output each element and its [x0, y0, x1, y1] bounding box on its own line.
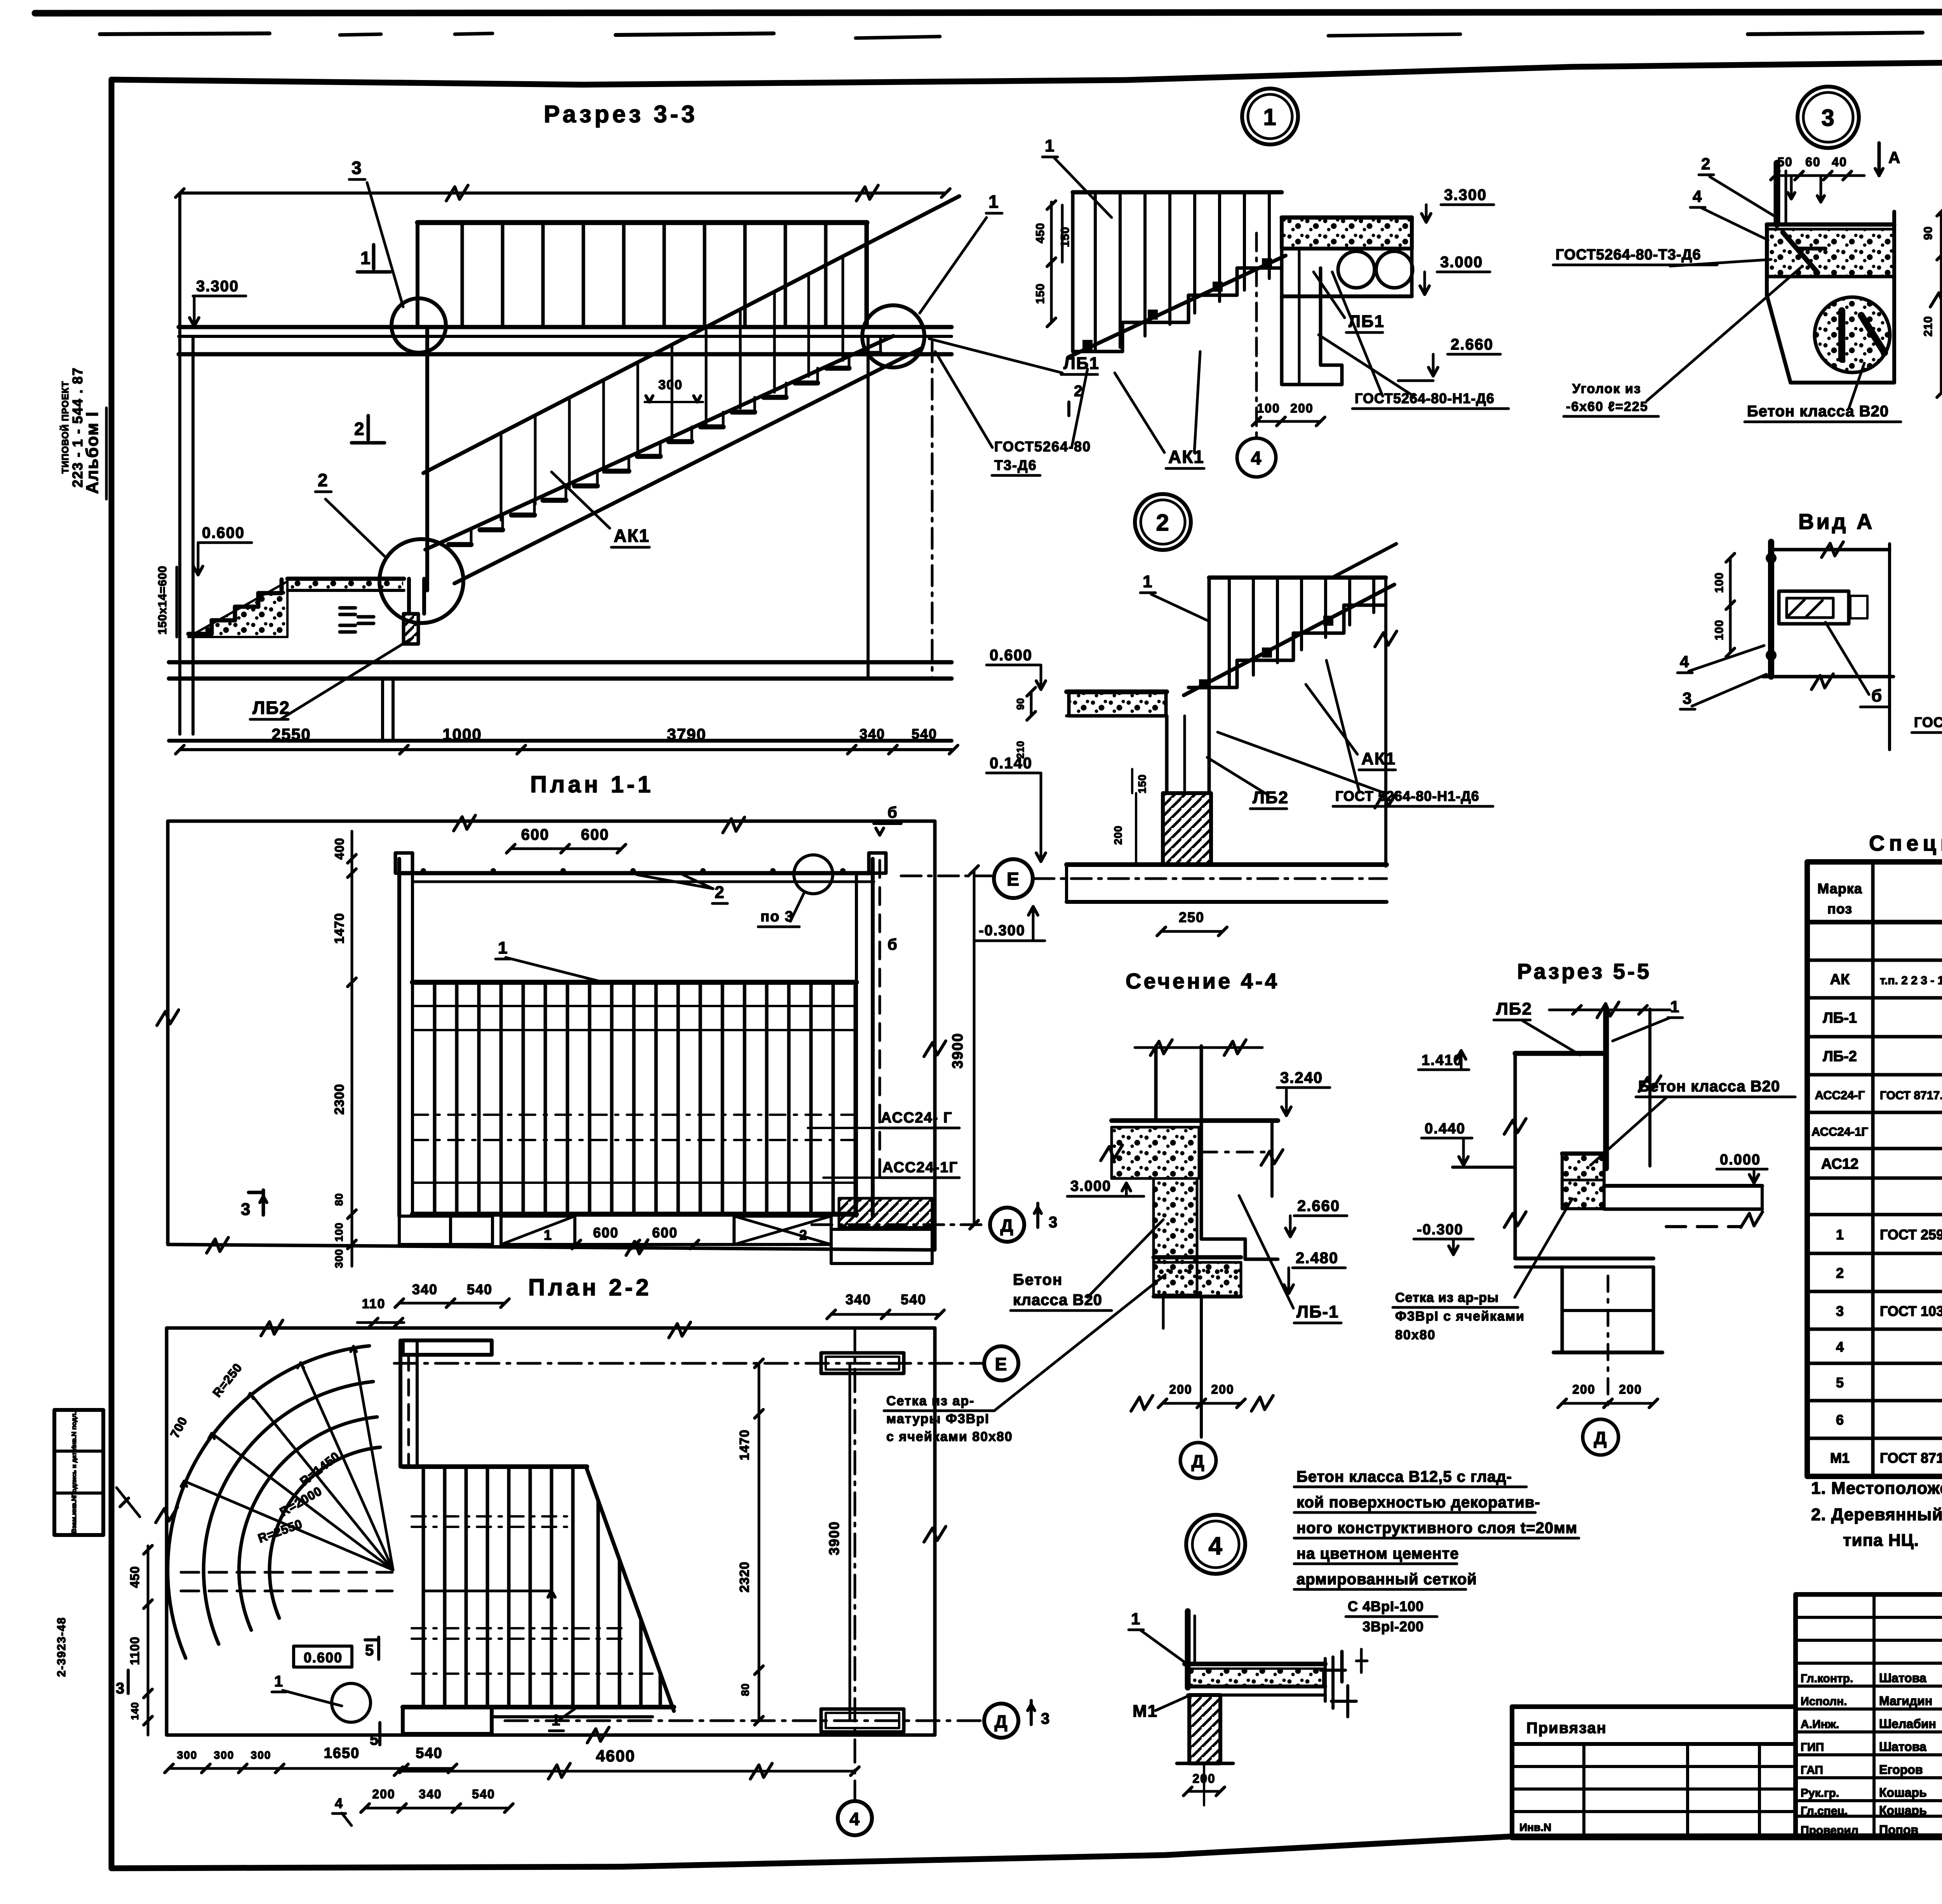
detail 3 right dims [1922, 207, 1942, 397]
detail 3 mark [1798, 87, 1859, 148]
svg-text:ГОСТ5264-80: ГОСТ5264-80 [994, 439, 1091, 454]
svg-text:ГИП: ГИП [1801, 1741, 1824, 1754]
detail 3 level 3.300 [1940, 192, 1942, 223]
svg-text:по 3: по 3 [760, 908, 794, 925]
5-5 concrete patch [1562, 1154, 1604, 1209]
svg-text:М1: М1 [1133, 1702, 1158, 1721]
svg-text:ЛБ-1: ЛБ-1 [1296, 1302, 1339, 1321]
5-5 level -0.300 [1414, 1222, 1473, 1255]
svg-text:2550: 2550 [271, 725, 311, 743]
svg-text:АК: АК [1830, 971, 1850, 988]
label 1 plan1 [496, 938, 605, 983]
detail 1 mark 4 [1237, 438, 1276, 477]
label GOST N1 detail 2 [1218, 660, 1493, 806]
plan 1-1 left wall [395, 853, 412, 1216]
svg-text:поз: поз [1827, 901, 1852, 917]
svg-text:1: 1 [1131, 1610, 1141, 1628]
brick hatch marks [340, 608, 374, 632]
detail 1 label 1 [1042, 136, 1112, 218]
svg-text:200: 200 [1112, 825, 1124, 845]
svg-text:200: 200 [1211, 1382, 1234, 1396]
svg-text:3: 3 [1683, 689, 1692, 707]
svg-text:4: 4 [1208, 1532, 1223, 1560]
svg-text:4600: 4600 [596, 1747, 635, 1765]
plan 2-2 bottom dims row2 [332, 1787, 513, 1826]
axis E detail 2 [994, 859, 1387, 898]
svg-text:ЛБ-2: ЛБ-2 [1823, 1048, 1857, 1065]
svg-text:матуры Ф3ВрI: матуры Ф3ВрI [886, 1411, 990, 1426]
label AK1 detail 2 [1306, 684, 1396, 770]
svg-text:ГОСТ 8717.1 - 84 - 00.4.00: ГОСТ 8717.1 - 84 - 00.4.00 [1880, 1450, 1942, 1466]
plan 2-2 right dims [737, 1359, 850, 1725]
M1 post [1188, 1611, 1195, 1688]
svg-text:2: 2 [715, 883, 725, 902]
svg-text:ТИПОВОЙ ПРОЕКТ: ТИПОВОЙ ПРОЕКТ [60, 381, 71, 474]
detail 2 level 0.140 [987, 755, 1046, 861]
plan 1-1 top wall [399, 868, 874, 882]
vid A top rail [1771, 542, 1890, 557]
M1 label 1 [1129, 1610, 1184, 1662]
level -0.300 detail 2 [976, 907, 1045, 941]
svg-text:Е: Е [1007, 869, 1020, 890]
svg-text:Проверил: Проверил [1801, 1824, 1858, 1837]
section mark 5 top [365, 1637, 379, 1659]
4-4 bottom dims [1131, 1382, 1273, 1411]
svg-text:250: 250 [1179, 909, 1204, 925]
svg-text:210: 210 [1922, 316, 1935, 336]
title block signature table [1796, 1594, 1942, 1838]
svg-text:2-3923-48: 2-3923-48 [55, 1617, 68, 1677]
svg-text:600: 600 [581, 826, 609, 843]
svg-text:Инв.N: Инв.N [1519, 1821, 1551, 1833]
svg-text:Кошарь: Кошарь [1879, 1786, 1927, 1800]
svg-text:2: 2 [1701, 155, 1711, 173]
balustrade parapet [418, 223, 867, 327]
svg-text:1: 1 [1143, 572, 1153, 591]
svg-text:ГОСТ5264-80-Т3-Д6: ГОСТ5264-80-Т3-Д6 [1556, 247, 1701, 263]
svg-text:Сетка из ар-ры: Сетка из ар-ры [1395, 1290, 1499, 1305]
plan 2-2 radial fan [167, 1346, 393, 1570]
plan 2-2 winder arcs [168, 1346, 380, 1658]
5-5 lower slab [1515, 1258, 1653, 1267]
plan 1-1 left dims [332, 831, 356, 1268]
svg-text:3.300: 3.300 [1444, 186, 1487, 204]
svg-text:200: 200 [1169, 1382, 1192, 1396]
detail 1 level 3.000 [1420, 254, 1490, 294]
svg-text:2: 2 [1836, 1265, 1844, 1281]
svg-text:типа НЦ.: типа НЦ. [1843, 1531, 1919, 1550]
node circle po3 [758, 855, 833, 927]
svg-text:ЛБ2: ЛБ2 [1496, 999, 1532, 1018]
svg-text:3ВрI-200: 3ВрI-200 [1363, 1619, 1424, 1634]
4-4 slab top line [1112, 1118, 1278, 1123]
section 3-3 left dim line [180, 193, 193, 734]
svg-text:АК1: АК1 [1361, 749, 1396, 768]
4-4 lower verticals [1163, 1297, 1201, 1437]
ground floor slab [169, 662, 952, 741]
notes below table [1811, 1479, 1942, 1550]
section 4-4 title [1126, 969, 1279, 993]
detail 2 landing slab [1067, 692, 1167, 716]
svg-text:Е: Е [995, 1354, 1008, 1374]
detail 1 left dims [1034, 201, 1072, 327]
5-5 wall post [1603, 1008, 1609, 1168]
svg-text:140: 140 [129, 1702, 141, 1720]
5-5 label LB2 [1494, 999, 1580, 1055]
paper top edge [35, 12, 1942, 38]
M1 slab [1185, 1659, 1325, 1701]
svg-text:Инв.N подл.: Инв.N подл. [70, 1411, 78, 1451]
svg-text:1. Местоположение лестницы с: 1. Местоположение лестницы см. листы 13,… [1811, 1479, 1942, 1498]
detail 2 stair flight [1184, 578, 1394, 695]
plan 1-1 right wall [856, 853, 886, 1216]
svg-text:3: 3 [116, 1680, 125, 1697]
svg-text:Кошарь: Кошарь [1879, 1803, 1927, 1817]
label AK1 detail 1 [1115, 352, 1204, 468]
svg-text:А: А [1888, 148, 1901, 167]
svg-text:540: 540 [901, 1291, 926, 1307]
svg-text:3: 3 [1041, 1710, 1050, 1727]
svg-text:Д: Д [1192, 1451, 1205, 1471]
stair well wall edge [425, 327, 429, 590]
label GOST handrail [1912, 695, 1942, 733]
svg-text:Шатова: Шатова [1879, 1740, 1926, 1754]
pier outline [409, 579, 424, 614]
vid A label 4 [1677, 646, 1764, 673]
plan 1-1 bottom strip [399, 1198, 932, 1264]
svg-text:2: 2 [799, 1227, 808, 1243]
svg-text:6: 6 [1836, 1412, 1844, 1428]
svg-text:-6х60 ℓ=225: -6х60 ℓ=225 [1566, 399, 1648, 414]
5-5 foundation [1554, 1267, 1662, 1406]
plan 2-2 upper wall [400, 1340, 492, 1467]
5-5 level 0.000 [1717, 1152, 1767, 1183]
svg-text:200: 200 [1619, 1382, 1642, 1396]
svg-text:80х80: 80х80 [1395, 1328, 1436, 1342]
detail 1 beam LB1 [1282, 249, 1342, 385]
spec table grid [1807, 862, 1942, 1476]
svg-text:Бетон класса В12,5 с глад-: Бетон класса В12,5 с глад- [1296, 1468, 1512, 1485]
entry landing slab [287, 579, 404, 590]
spec table rows [1811, 932, 1942, 1466]
svg-text:Попов: Попов [1879, 1823, 1918, 1837]
section 3-3 title [544, 101, 698, 128]
axis D 5-5 [1583, 1419, 1618, 1455]
svg-text:3.240: 3.240 [1280, 1069, 1323, 1086]
dim 3900 plan 1-1 [950, 866, 978, 1229]
dim 600 600 top [506, 826, 626, 853]
svg-text:340: 340 [846, 1291, 871, 1307]
svg-text:150: 150 [1059, 226, 1072, 247]
label LB1 detail 1 [1314, 272, 1385, 332]
5-5 landing slab [1604, 1186, 1763, 1227]
plan 2-2 dim 4600 [394, 1747, 859, 1779]
axis D 4-4 [1180, 1443, 1216, 1478]
5-5 left wall [1504, 1053, 1526, 1258]
svg-text:3790: 3790 [667, 725, 706, 743]
detail 2 floor [1067, 865, 1387, 902]
plan 1-1 boundary [157, 815, 946, 1255]
section 5-5 title [1517, 959, 1651, 983]
svg-text:4: 4 [1836, 1339, 1844, 1355]
4-4 level 2.480 [1284, 1250, 1345, 1293]
svg-text:1: 1 [274, 1673, 284, 1690]
svg-text:Разрез 5-5: Разрез 5-5 [1517, 959, 1651, 983]
svg-text:с ячейками 80х80: с ячейками 80х80 [886, 1429, 1013, 1444]
stair rail balusters [501, 256, 843, 520]
svg-text:1: 1 [360, 248, 371, 268]
svg-text:-0.300: -0.300 [1417, 1222, 1463, 1238]
svg-text:3.300: 3.300 [196, 278, 239, 295]
section 3-3 top dim line [176, 185, 950, 201]
svg-text:б: б [887, 936, 898, 953]
svg-text:Сечение 4-4: Сечение 4-4 [1126, 969, 1279, 993]
detail 2 dim 250 [1157, 909, 1227, 936]
4-4 slab concrete [1101, 1127, 1199, 1178]
label 1 leader [920, 191, 1002, 313]
label ACC24-G [808, 1110, 959, 1128]
svg-text:2320: 2320 [737, 1561, 752, 1592]
svg-text:армированный сеткой: армированный сеткой [1296, 1571, 1477, 1588]
vid A right edge [1888, 544, 1891, 750]
svg-text:АК1: АК1 [1168, 447, 1204, 467]
svg-text:80: 80 [739, 1683, 751, 1696]
svg-text:540: 540 [467, 1281, 492, 1297]
label GOST t3 right [935, 352, 1091, 475]
left riser dim rot [156, 566, 177, 637]
vid A bottom line [1763, 674, 1893, 689]
label 1 flight bottom [549, 1708, 576, 1731]
svg-text:600: 600 [521, 826, 550, 843]
svg-text:3900: 3900 [826, 1521, 842, 1555]
detail 2 mark [1135, 494, 1191, 550]
svg-text:3.000: 3.000 [1070, 1178, 1111, 1194]
level 0.600 mark [193, 524, 252, 575]
svg-text:2: 2 [354, 419, 365, 439]
svg-text:Спецификация изделий на лес: Спецификация изделий на лестницу [1869, 831, 1942, 855]
svg-text:1: 1 [498, 938, 508, 957]
svg-text:300: 300 [214, 1749, 235, 1761]
detail 3 A mark [1875, 143, 1901, 176]
M1 wall hatched [1177, 1695, 1233, 1763]
svg-text:1100: 1100 [128, 1636, 142, 1665]
svg-text:0.600: 0.600 [304, 1650, 343, 1666]
handrail diagonal [423, 196, 959, 473]
svg-text:90: 90 [1015, 698, 1026, 710]
svg-text:АК1: АК1 [614, 526, 650, 546]
4-4 level 3.000 [1067, 1178, 1144, 1196]
svg-text:т.п. 2 2 3 - 1 - 544 . 87 л: т.п. 2 2 3 - 1 - 544 . 87 л. 47 [1880, 974, 1942, 987]
spec table title [1869, 831, 1942, 855]
label 2 leader [315, 470, 385, 556]
svg-text:600: 600 [652, 1225, 678, 1241]
svg-text:АСС24-1Г: АСС24-1Г [1811, 1125, 1868, 1138]
title block privyazan table [1512, 1707, 1796, 1838]
svg-text:90: 90 [1922, 226, 1935, 240]
vid A label B [1825, 622, 1888, 707]
svg-text:1: 1 [988, 191, 999, 212]
4-4 label setka [884, 1275, 1165, 1444]
svg-text:ного конструктивного слоя t=20: ного конструктивного слоя t=20мм [1296, 1519, 1577, 1537]
section mark 3 plan1 [241, 1190, 267, 1219]
axis D plan 2-2 [505, 1700, 1050, 1738]
plan 2-2 title [528, 1274, 652, 1300]
foundation verticals [383, 336, 932, 741]
4-4 level 3.240 [1277, 1069, 1330, 1116]
svg-text:1: 1 [544, 1227, 552, 1243]
detail 3 label 4 [1690, 187, 1768, 240]
detail 1 level 3.300 [1422, 186, 1494, 222]
plan 2-2 left dims [116, 1545, 152, 1735]
svg-text:3.000: 3.000 [1440, 254, 1483, 271]
plan 2-2 dashed axes [117, 1488, 392, 1591]
svg-text:Альбом I: Альбом I [83, 411, 102, 494]
svg-text:2.480: 2.480 [1296, 1250, 1338, 1267]
M1 dim 200 [1183, 1765, 1225, 1805]
svg-text:3: 3 [1836, 1303, 1844, 1319]
svg-text:Подпись и дата: Подпись и дата [71, 1449, 78, 1497]
detail 1 axis line [1255, 233, 1258, 439]
vid A post [1766, 542, 1777, 677]
stringer AK1 bottom [454, 348, 921, 583]
margin boxes bottom [54, 1410, 103, 1535]
svg-text:340: 340 [412, 1281, 438, 1297]
svg-text:300: 300 [251, 1749, 271, 1761]
svg-text:Привязан: Привязан [1526, 1720, 1607, 1737]
entry steps [188, 580, 287, 637]
label GOST N1 detail 1 [1319, 272, 1509, 409]
svg-text:60: 60 [1805, 155, 1821, 169]
detail 3 label 2 [1699, 155, 1774, 216]
stringer AK1 top [425, 336, 893, 550]
label 2 plan1 [637, 875, 727, 903]
plan 1-1 cut line b [874, 804, 901, 1185]
svg-text:АС12: АС12 [1821, 1156, 1858, 1172]
5-5 top dim [1549, 997, 1683, 1041]
svg-text:300: 300 [333, 1249, 345, 1268]
svg-text:1650: 1650 [324, 1745, 360, 1761]
svg-text:ГОСТ 2591- 71*: ГОСТ 2591- 71* [1880, 1227, 1942, 1243]
label 1 arc [272, 1673, 342, 1706]
svg-text:3: 3 [352, 158, 362, 178]
detail 1 mark [1242, 89, 1298, 144]
4-4 beam edge [1201, 1121, 1283, 1259]
detail 2 dims 150 200 [1112, 769, 1148, 865]
svg-text:Д: Д [1594, 1428, 1608, 1448]
label AK1 [552, 472, 650, 547]
svg-text:340: 340 [419, 1787, 442, 1801]
svg-text:200: 200 [1290, 401, 1313, 415]
svg-text:2.660: 2.660 [1451, 336, 1493, 353]
svg-text:Разрез 3-3: Разрез 3-3 [544, 101, 698, 128]
detail 1 stair flight [1068, 192, 1286, 357]
detail 1 dim 100 200 [1252, 401, 1325, 426]
M1 label [1133, 1696, 1189, 1721]
svg-text:600: 600 [593, 1225, 619, 1241]
svg-text:2: 2 [1156, 510, 1169, 536]
svg-text:Гл.спец.: Гл.спец. [1801, 1805, 1848, 1817]
concrete spec text block [1294, 1468, 1579, 1634]
svg-text:2: 2 [318, 470, 329, 490]
svg-text:-0.300: -0.300 [979, 922, 1025, 939]
label 1 detail 2 [1140, 572, 1208, 621]
svg-text:АСС24-Г: АСС24-Г [1815, 1088, 1865, 1102]
svg-text:4: 4 [849, 1809, 860, 1829]
svg-text:100: 100 [1713, 620, 1726, 640]
svg-text:ГОСТ 103 - 76*: ГОСТ 103 - 76* [1880, 1303, 1942, 1319]
svg-text:1470: 1470 [737, 1429, 752, 1460]
detail 1 level 2.660 [1398, 336, 1500, 381]
dim 300 step [645, 378, 703, 402]
svg-text:540: 540 [472, 1787, 495, 1801]
svg-text:200: 200 [1572, 1382, 1595, 1396]
svg-text:4: 4 [1693, 187, 1702, 205]
5-5 bottom dims [1558, 1382, 1658, 1408]
5-5 landing top [1515, 1051, 1603, 1056]
svg-text:2.660: 2.660 [1297, 1197, 1340, 1215]
vid A title [1798, 509, 1874, 534]
svg-text:0.600: 0.600 [202, 524, 245, 541]
label 3 leader [349, 158, 403, 307]
svg-text:Егоров: Егоров [1879, 1763, 1923, 1777]
svg-text:4: 4 [335, 1795, 343, 1811]
axis E plan 2-2 [394, 1346, 1018, 1380]
svg-text:100: 100 [333, 1222, 345, 1242]
vid A bolt [1779, 591, 1867, 624]
svg-text:4: 4 [1680, 653, 1690, 671]
4-4 level 2.660 [1286, 1197, 1347, 1237]
detail 3 concrete bulb [1815, 297, 1890, 372]
node circle detail 3 ref [392, 298, 446, 353]
detail 2 beam LB2 [1167, 606, 1209, 793]
svg-text:Ф3ВрI с ячейками: Ф3ВрI с ячейками [1395, 1309, 1525, 1324]
detail 3 post [1777, 163, 1786, 225]
svg-text:1000: 1000 [442, 725, 482, 743]
M1 anchor marks [1321, 1649, 1367, 1717]
axis 4 plan 2-2 [838, 1328, 872, 1835]
svg-text:План 2-2: План 2-2 [528, 1274, 652, 1300]
vid A dims [1713, 553, 1735, 657]
label ACC24-1G [823, 1159, 959, 1178]
margin stamp top [60, 367, 106, 499]
axis E plan 1-1 line [901, 875, 991, 877]
detail 2 pier hatched [1163, 793, 1211, 865]
4-4 wall concrete [1154, 1178, 1197, 1295]
svg-text:б: б [887, 804, 898, 821]
svg-text:Бетон класса В20: Бетон класса В20 [1747, 403, 1889, 420]
stair treads [449, 339, 881, 545]
5-5 label setka [1393, 1199, 1572, 1342]
node circle detail 2 ref [379, 539, 463, 623]
svg-text:150х14=600: 150х14=600 [156, 566, 169, 635]
axis D plan 1-1 [812, 1203, 1058, 1242]
detail 1 floor slab [1282, 218, 1413, 296]
svg-text:540: 540 [912, 726, 937, 742]
4-4 label LB-1 [1239, 1196, 1341, 1323]
section 3-3 bottom dim [176, 725, 958, 754]
section mark 2-2 [352, 416, 385, 443]
svg-text:Магидин: Магидин [1879, 1694, 1932, 1708]
svg-text:3: 3 [241, 1200, 251, 1219]
svg-text:ЛБ-1: ЛБ-1 [1823, 1010, 1857, 1026]
5-5 label concrete [1590, 1078, 1795, 1165]
svg-text:М1: М1 [1830, 1450, 1850, 1466]
svg-text:АСС24- Г: АСС24- Г [881, 1110, 952, 1126]
node circle detail 1 ref [862, 305, 924, 367]
svg-text:ЛБ2: ЛБ2 [1253, 788, 1289, 807]
svg-text:150: 150 [1034, 283, 1047, 304]
svg-text:План 1-1: План 1-1 [530, 771, 654, 797]
